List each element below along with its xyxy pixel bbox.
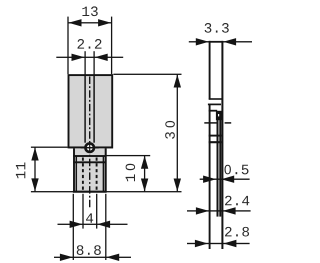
dim 2.2 extension right — [93, 51, 94, 74]
dim 2.8 label — [225, 227, 232, 237]
tab outer edge left — [73, 148, 75, 191]
dim 4 line — [58, 224, 128, 225]
dim 30 arrow bottom — [174, 179, 181, 192]
dim 30 extension top — [113, 74, 181, 75]
tab outer edge right — [105, 148, 107, 191]
side view crimp line upper — [209, 135, 222, 137]
dim 11 label — [16, 171, 25, 178]
side view fold leaf left — [217, 120, 219, 217]
dim 10 line — [144, 156, 145, 192]
dim 13 extension line left — [67, 17, 68, 75]
side view top edge — [209, 41, 224, 43]
dim 30 arrow top — [174, 75, 181, 88]
dim 13 label — [82, 7, 89, 16]
dim 2.4 arrow right — [223, 207, 236, 214]
dim 8.8 extension right — [105, 194, 106, 260]
side view fold leaf right — [219, 120, 221, 217]
dim 4 arrow left — [70, 221, 83, 228]
dim 11 extension top — [31, 147, 68, 148]
side view web line 2 — [208, 104, 221, 106]
dim 3.3 label — [205, 23, 212, 33]
side view left wall lower — [209, 104, 211, 249]
hole centerline horizontal — [81, 147, 99, 149]
tab bottom edge — [73, 191, 107, 193]
dim 13 arrow right — [98, 19, 111, 26]
dim 3.3 arrow right — [223, 38, 236, 45]
slot line left — [84, 75, 86, 143]
side view center mark right — [225, 122, 232, 124]
dim 4 extension right — [96, 194, 97, 229]
tab hidden line right — [96, 158, 98, 191]
dim 3.3 line — [189, 41, 252, 42]
dim 11 arrow bottom — [31, 178, 38, 191]
front view lower tab fill — [73, 149, 106, 192]
side view right wall — [221, 41, 223, 249]
dim 30 label — [165, 132, 175, 139]
front view body outline — [69, 75, 113, 147]
dim 11 arrow top — [31, 148, 38, 161]
dim 10 arrow top — [141, 156, 148, 169]
dim 8.8 arrow right — [106, 254, 119, 261]
side view web line 3 — [209, 110, 218, 112]
dim 2.8 arrow right — [223, 240, 236, 247]
dim 0.5 line — [200, 179, 250, 180]
dim 2.2 extension left — [84, 51, 85, 74]
dim 3.3 arrow left — [196, 38, 209, 45]
dim 0.5 arrow right — [221, 176, 234, 183]
side view left wall upper — [209, 41, 211, 100]
tab inner edge left — [76, 156, 78, 191]
dim 2.8 line — [187, 243, 250, 244]
tab fold line lower — [73, 161, 106, 163]
dim 13 line — [68, 22, 112, 23]
dim 4 label — [86, 213, 93, 222]
dim 2.4 line — [187, 210, 251, 211]
dim 4 extension left — [82, 194, 83, 229]
vertical centerline — [89, 77, 91, 210]
side view fold bend — [216, 111, 223, 120]
dim 8.8 extension left — [73, 194, 74, 260]
bottom extension line — [31, 191, 182, 192]
dim 2.4 arrow left — [196, 207, 209, 214]
dim 0.5 arrow left — [203, 176, 216, 183]
dim 13 extension line right — [111, 17, 112, 75]
dim 4 arrow right — [97, 221, 110, 228]
tab inner edge right — [103, 156, 105, 191]
dim 2.2 arrow right — [95, 54, 108, 61]
front view body fill — [69, 75, 114, 149]
dim 10 extension top — [105, 155, 151, 156]
side view web line 1 — [209, 98, 223, 100]
dim 8.8 arrow left — [60, 254, 73, 261]
dim 10 arrow bottom — [141, 179, 148, 192]
dim 2.8 arrow left — [195, 240, 208, 247]
dim 0.5 label — [224, 165, 230, 175]
side view crimp line lower — [209, 141, 222, 143]
hole — [85, 143, 94, 152]
side view center mark left — [204, 122, 217, 124]
dim 2.2 line — [56, 57, 123, 58]
tab hidden line left — [82, 158, 84, 191]
dim 8.8 line — [54, 257, 131, 258]
dim 2.2 label — [78, 39, 85, 49]
dim 13 arrow left — [69, 19, 82, 26]
hole centerline vertical — [89, 143, 90, 152]
dim 2.4 label — [225, 196, 232, 206]
dim 10 label — [126, 174, 135, 181]
slot line right — [93, 75, 95, 143]
dim 11 line — [34, 147, 35, 192]
dim 2.2 arrow left — [72, 54, 85, 61]
tab fold line upper — [73, 155, 106, 157]
dim 30 line — [177, 74, 178, 191]
dim 8.8 label — [77, 245, 84, 255]
